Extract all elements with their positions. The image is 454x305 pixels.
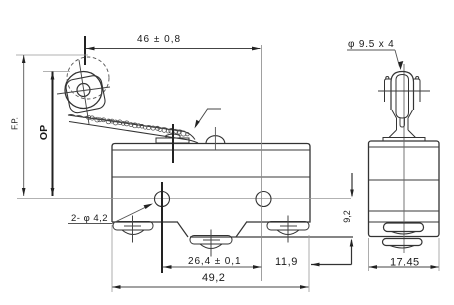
- lever arm serration: [68, 115, 184, 132]
- mounting hole right: [256, 192, 271, 207]
- neck: [392, 110, 413, 118]
- svg-text:11,9: 11,9: [275, 256, 298, 268]
- right view terminal 1: [384, 223, 424, 232]
- pivot bump: [166, 134, 180, 138]
- roller crosshair: [57, 60, 110, 124]
- right edge extension line: [308, 235, 310, 292]
- dimension 46 +- 0.8: [86, 48, 261, 50]
- mounting hole left: [155, 192, 170, 207]
- middle screw terminal plate: [190, 236, 232, 245]
- flare: [389, 130, 416, 138]
- svg-text:F.P.: F.P.: [11, 117, 20, 130]
- svg-text:φ 9.5 x 4: φ 9.5 x 4: [348, 39, 394, 50]
- roller top centerline (thick): [84, 36, 86, 65]
- right view terminal seam: [369, 221, 440, 223]
- left screw terminal plate: [113, 222, 153, 231]
- FP extension line: [16, 54, 88, 56]
- pivot base plate: [156, 138, 189, 143]
- svg-text:17.45: 17.45: [390, 257, 420, 269]
- OP dimension line (thick): [52, 72, 54, 197]
- fork plate right tab: [416, 77, 419, 80]
- left screw slot cross: [124, 216, 141, 243]
- mounting reference line: [17, 198, 351, 200]
- dimension 11.9 arrow: [311, 264, 352, 266]
- roller side view inner: [396, 75, 409, 119]
- roller inner circle: [77, 84, 90, 97]
- body internal seam line: [112, 176, 310, 178]
- plunger centerline: [214, 127, 216, 150]
- right view body: [369, 141, 440, 237]
- left screw head: [122, 230, 144, 235]
- left hole centerline (thick): [161, 182, 163, 273]
- dimension 26.4 line: [163, 266, 262, 268]
- right view mid seam: [369, 179, 440, 181]
- bottom face / 9.2 extension line: [190, 236, 353, 238]
- lever arm edges: [68, 115, 198, 143]
- svg-text:46 ± 0,8: 46 ± 0,8: [137, 34, 181, 45]
- leader dia 9.5x4: [347, 49, 395, 51]
- lever arm coil texture: [87, 115, 190, 136]
- leader 2-dia4.2: [68, 223, 112, 225]
- dimension 9.2 upper arrow: [351, 173, 353, 196]
- middle screw slot cross: [203, 230, 220, 257]
- right view terminal 2: [383, 239, 423, 246]
- leader to lever tip: [196, 109, 221, 126]
- left edge extension line: [111, 225, 113, 292]
- fork plate left tab: [386, 77, 389, 80]
- dimension 9.2 lower arrow: [351, 240, 353, 265]
- middle screw head: [200, 244, 222, 249]
- svg-text:49,2: 49,2: [202, 272, 225, 284]
- FP dimension line: [23, 55, 25, 196]
- right screw head: [277, 230, 299, 235]
- fork plate right: [414, 79, 421, 102]
- fork plate left: [385, 79, 392, 102]
- right screw terminal plate: [267, 222, 309, 231]
- 17.45 extension lines: [368, 238, 370, 271]
- dimension 17.45: [369, 266, 440, 268]
- right view seam 2: [369, 210, 440, 212]
- right hole centerline: [261, 45, 263, 281]
- stem: [397, 118, 409, 130]
- pivot centerline (thick): [172, 124, 174, 163]
- svg-text:2- φ 4,2: 2- φ 4,2: [71, 213, 108, 224]
- plunger dome: [206, 136, 225, 144]
- roller outer circle: [65, 72, 102, 109]
- svg-text:OP: OP: [38, 125, 50, 140]
- body outline left view: [112, 144, 310, 223]
- stem inner: [400, 118, 405, 127]
- right screw slot cross: [280, 216, 297, 243]
- body top seam line: [112, 149, 310, 151]
- dimension 49.2 line: [112, 286, 309, 288]
- right view centerline: [403, 64, 405, 253]
- svg-text:9,2: 9,2: [342, 210, 352, 223]
- svg-text:26,4 ± 0,1: 26,4 ± 0,1: [188, 256, 241, 267]
- roller side view outer: [391, 72, 414, 111]
- right view top seam: [369, 146, 440, 148]
- body bottom step profile: [177, 222, 247, 238]
- lever fork head: [65, 74, 107, 114]
- base plate: [383, 138, 425, 142]
- roller side crosshair: [378, 90, 430, 92]
- free-position dashed circle: [67, 57, 109, 99]
- OP extension line: [43, 71, 70, 73]
